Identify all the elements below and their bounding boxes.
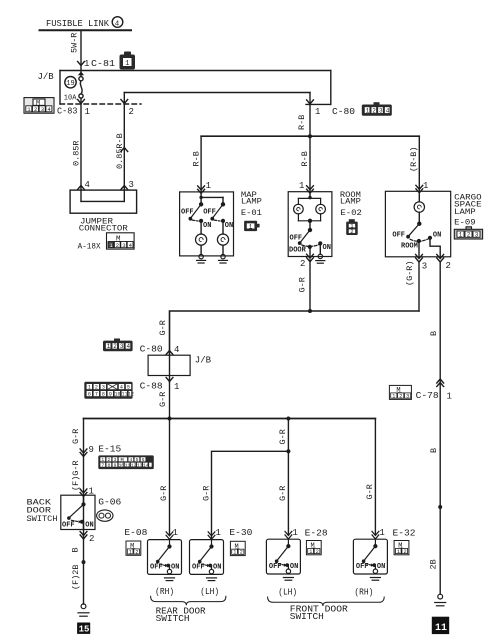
svg-text:E-30: E-30 bbox=[229, 528, 252, 538]
svg-text:2B: 2B bbox=[429, 559, 439, 569]
svg-text:7: 7 bbox=[95, 391, 98, 397]
svg-text:7: 7 bbox=[101, 462, 104, 468]
svg-text:G-R: G-R bbox=[278, 429, 288, 444]
svg-text:1: 1 bbox=[379, 528, 384, 538]
svg-text:10A: 10A bbox=[64, 95, 77, 103]
svg-text:1: 1 bbox=[315, 107, 320, 117]
svg-text:1: 1 bbox=[423, 181, 428, 191]
svg-text:J/B: J/B bbox=[195, 356, 212, 366]
svg-text:ON: ON bbox=[203, 222, 211, 230]
svg-text:OFF: OFF bbox=[181, 209, 194, 217]
svg-text:2: 2 bbox=[113, 343, 117, 350]
svg-text:9: 9 bbox=[109, 391, 112, 397]
svg-text:4: 4 bbox=[85, 180, 90, 190]
svg-text:R-B: R-B bbox=[191, 151, 201, 166]
svg-text:FUSIBLE LINK: FUSIBLE LINK bbox=[46, 19, 110, 29]
svg-text:1: 1 bbox=[101, 457, 104, 463]
svg-text:LAMP: LAMP bbox=[454, 207, 476, 217]
svg-text:11: 11 bbox=[125, 462, 131, 468]
svg-text:B: B bbox=[429, 448, 439, 453]
svg-text:B: B bbox=[71, 547, 81, 552]
svg-text:ON: ON bbox=[433, 231, 441, 239]
svg-text:9: 9 bbox=[89, 445, 94, 455]
svg-text:12: 12 bbox=[128, 391, 134, 397]
svg-text:1: 1 bbox=[173, 528, 178, 538]
svg-text:3: 3 bbox=[102, 384, 105, 390]
svg-text:1: 1 bbox=[366, 107, 370, 114]
svg-text:1: 1 bbox=[107, 343, 111, 350]
svg-text:1: 1 bbox=[174, 382, 179, 392]
svg-text:M: M bbox=[121, 457, 124, 463]
svg-text:G-R: G-R bbox=[158, 320, 168, 335]
svg-text:(F)2B: (F)2B bbox=[71, 564, 81, 590]
svg-text:OFF: OFF bbox=[392, 232, 405, 240]
svg-text:0.85R: 0.85R bbox=[72, 140, 82, 166]
svg-text:2: 2 bbox=[446, 261, 451, 271]
svg-text:G-R: G-R bbox=[159, 486, 169, 501]
svg-text:6: 6 bbox=[88, 391, 91, 397]
svg-text:E-02: E-02 bbox=[340, 208, 362, 218]
svg-text:12: 12 bbox=[131, 462, 137, 468]
svg-text:B: B bbox=[429, 331, 439, 336]
svg-text:C-80: C-80 bbox=[140, 345, 163, 355]
svg-text:C-83: C-83 bbox=[57, 107, 78, 117]
svg-text:8: 8 bbox=[102, 391, 105, 397]
svg-text:3: 3 bbox=[379, 107, 383, 114]
svg-text:ON: ON bbox=[85, 522, 93, 530]
svg-text:A-18X: A-18X bbox=[78, 242, 101, 252]
svg-text:19: 19 bbox=[66, 80, 74, 88]
svg-text:SWITCH: SWITCH bbox=[27, 514, 58, 524]
svg-text:4: 4 bbox=[127, 343, 131, 350]
svg-text:OFF: OFF bbox=[62, 522, 75, 530]
svg-text:15: 15 bbox=[79, 625, 90, 635]
svg-text:(RH): (RH) bbox=[155, 587, 174, 597]
svg-text:11: 11 bbox=[122, 391, 128, 397]
svg-text:C-81: C-81 bbox=[91, 59, 115, 69]
svg-text:1: 1 bbox=[84, 59, 89, 69]
svg-text:6: 6 bbox=[142, 457, 145, 463]
svg-text:5: 5 bbox=[136, 457, 139, 463]
svg-text:(LH): (LH) bbox=[278, 588, 297, 598]
svg-text:J/B: J/B bbox=[38, 72, 55, 82]
svg-text:G-R: G-R bbox=[158, 392, 168, 407]
svg-text:(R-B): (R-B) bbox=[409, 146, 419, 172]
svg-text:2: 2 bbox=[350, 228, 353, 235]
svg-text:3: 3 bbox=[114, 457, 117, 463]
svg-text:E-15: E-15 bbox=[98, 445, 121, 455]
svg-text:R-B: R-B bbox=[300, 151, 310, 166]
svg-text:2: 2 bbox=[116, 242, 119, 249]
svg-text:C-78: C-78 bbox=[416, 391, 439, 401]
svg-text:13: 13 bbox=[137, 462, 143, 468]
svg-text:ON: ON bbox=[225, 222, 233, 230]
svg-text:5W-R: 5W-R bbox=[70, 33, 80, 53]
svg-text:9: 9 bbox=[114, 462, 117, 468]
svg-text:3: 3 bbox=[122, 242, 125, 249]
svg-text:LAMP: LAMP bbox=[340, 197, 361, 207]
svg-text:G-R: G-R bbox=[297, 277, 307, 292]
svg-text:2: 2 bbox=[300, 259, 305, 269]
svg-text:CONNECTOR: CONNECTOR bbox=[79, 224, 128, 234]
svg-text:DOOR: DOOR bbox=[289, 246, 307, 254]
svg-text:ROOM: ROOM bbox=[401, 243, 418, 251]
svg-text:G-R: G-R bbox=[71, 429, 81, 444]
svg-text:14: 14 bbox=[143, 462, 149, 468]
svg-text:1: 1 bbox=[85, 107, 90, 117]
svg-text:2: 2 bbox=[108, 457, 111, 463]
svg-text:1: 1 bbox=[206, 181, 211, 191]
svg-text:2: 2 bbox=[399, 394, 402, 400]
svg-text:OFF: OFF bbox=[203, 209, 216, 217]
svg-text:E-32: E-32 bbox=[393, 529, 416, 539]
svg-text:1: 1 bbox=[125, 60, 129, 68]
svg-text:3: 3 bbox=[406, 394, 409, 400]
svg-text:8: 8 bbox=[108, 462, 111, 468]
svg-text:11: 11 bbox=[435, 623, 447, 634]
svg-text:4: 4 bbox=[120, 384, 123, 390]
svg-text:C-88: C-88 bbox=[140, 382, 163, 392]
svg-text:E-01: E-01 bbox=[241, 208, 262, 218]
svg-text:ON: ON bbox=[323, 244, 331, 252]
svg-text:1: 1 bbox=[249, 223, 253, 230]
svg-text:(F)G-R: (F)G-R bbox=[71, 460, 81, 491]
svg-text:1: 1 bbox=[392, 394, 395, 400]
svg-text:3: 3 bbox=[41, 106, 44, 113]
svg-text:LAMP: LAMP bbox=[241, 197, 262, 207]
svg-text:R-B: R-B bbox=[297, 115, 307, 130]
svg-text:10: 10 bbox=[119, 462, 125, 468]
svg-text:1: 1 bbox=[299, 181, 304, 191]
svg-text:G-06: G-06 bbox=[98, 498, 121, 508]
svg-text:3: 3 bbox=[129, 180, 134, 190]
svg-text:2: 2 bbox=[467, 232, 471, 239]
svg-text:3: 3 bbox=[120, 343, 124, 350]
svg-text:SWITCH: SWITCH bbox=[290, 612, 324, 622]
svg-text:4: 4 bbox=[115, 20, 120, 28]
svg-text:OFF: OFF bbox=[290, 234, 303, 242]
svg-text:2: 2 bbox=[129, 107, 134, 117]
svg-text:E-08: E-08 bbox=[124, 528, 147, 538]
svg-text:G-R: G-R bbox=[278, 486, 288, 501]
svg-text:1: 1 bbox=[88, 384, 91, 390]
svg-text:(RH): (RH) bbox=[354, 588, 373, 598]
svg-text:1: 1 bbox=[447, 392, 452, 402]
svg-text:2: 2 bbox=[372, 107, 376, 114]
svg-text:0.85R-B: 0.85R-B bbox=[115, 133, 125, 169]
svg-text:1: 1 bbox=[292, 528, 297, 538]
svg-text:5: 5 bbox=[127, 384, 130, 390]
svg-text:2: 2 bbox=[95, 384, 98, 390]
svg-text:E-28: E-28 bbox=[305, 529, 328, 539]
svg-text:4: 4 bbox=[174, 345, 179, 355]
svg-text:3: 3 bbox=[422, 262, 427, 272]
svg-text:2: 2 bbox=[34, 106, 37, 113]
svg-text:SWITCH: SWITCH bbox=[156, 614, 190, 624]
svg-text:3: 3 bbox=[475, 232, 479, 239]
svg-text:E-09: E-09 bbox=[454, 218, 476, 228]
svg-text:G-R: G-R bbox=[201, 486, 211, 501]
svg-text:10: 10 bbox=[115, 391, 121, 397]
svg-text:2: 2 bbox=[89, 534, 94, 544]
svg-text:C-80: C-80 bbox=[332, 107, 355, 117]
svg-text:(LH): (LH) bbox=[200, 587, 219, 597]
svg-text:1: 1 bbox=[216, 528, 221, 538]
svg-text:4: 4 bbox=[386, 107, 390, 114]
svg-text:(G-R): (G-R) bbox=[405, 260, 415, 286]
svg-text:1: 1 bbox=[459, 232, 463, 239]
svg-text:G-R: G-R bbox=[365, 484, 375, 499]
svg-text:4: 4 bbox=[130, 457, 133, 463]
